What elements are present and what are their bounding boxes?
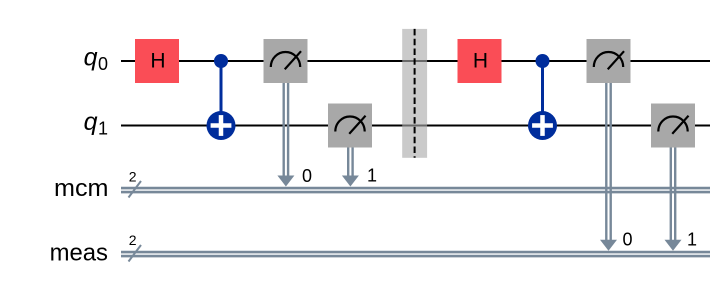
svg-text:meas: meas <box>50 239 108 266</box>
svg-text:H: H <box>150 50 165 73</box>
svg-text:2: 2 <box>129 232 137 248</box>
svg-text:1: 1 <box>687 230 697 250</box>
svg-text:q: q <box>84 108 98 136</box>
svg-text:1: 1 <box>367 166 377 186</box>
svg-text:0: 0 <box>623 230 633 250</box>
svg-text:H: H <box>473 50 488 73</box>
svg-text:0: 0 <box>302 166 312 186</box>
svg-text:0: 0 <box>98 54 108 74</box>
svg-text:1: 1 <box>98 118 108 138</box>
svg-text:2: 2 <box>129 169 137 185</box>
svg-text:q: q <box>84 44 98 72</box>
svg-text:mcm: mcm <box>54 175 109 202</box>
